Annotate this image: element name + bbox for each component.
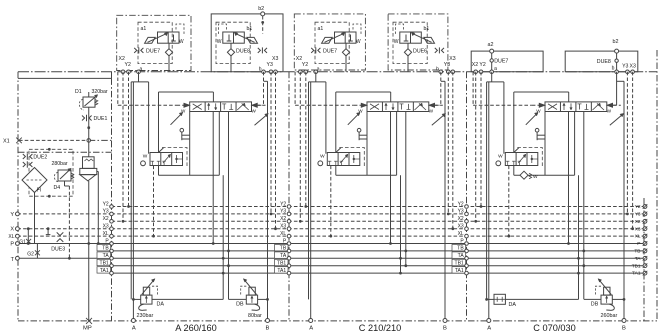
svg-text:b2: b2 bbox=[258, 6, 264, 12]
pressure reducer section 1 dashed box bbox=[162, 148, 187, 167]
main valve V2 right actuator bbox=[429, 104, 442, 106]
wire a pilot supply section 3 bbox=[491, 72, 493, 82]
plug G1 bbox=[27, 229, 29, 244]
wire b pilot to right actuator section 1 bbox=[263, 72, 265, 105]
bus line Y2 bbox=[112, 206, 644, 208]
wire LS B section 2 bbox=[405, 112, 407, 266]
svg-text:X: X bbox=[10, 227, 14, 233]
svg-text:a1: a1 bbox=[141, 26, 147, 32]
pilot valve DUE7 blocked port bbox=[173, 35, 175, 42]
bus line TB1 bbox=[112, 265, 644, 267]
section 1 b-pilot solid box bbox=[211, 14, 283, 72]
svg-text:X3: X3 bbox=[103, 224, 109, 230]
svg-text:DA: DA bbox=[509, 302, 517, 308]
pressure reducer valve section 1 body bbox=[150, 153, 183, 166]
port B section 1 bbox=[266, 319, 270, 323]
node TB section 2 bbox=[275, 245, 289, 251]
main valve V2 left actuator bbox=[354, 104, 366, 106]
relief valve DB3 arrow bbox=[599, 280, 612, 295]
svg-text:P: P bbox=[637, 241, 640, 247]
wire DB to LS bbox=[229, 298, 247, 300]
pilot valve DUE8 dashed box bbox=[216, 22, 250, 63]
manifold top interface line bbox=[18, 71, 657, 73]
pilot valve DUE8 flow arrow bbox=[236, 34, 255, 43]
section 3 b2 remote box bbox=[565, 51, 638, 72]
bus line XL bbox=[112, 235, 644, 237]
pilot valve DUE7 flow arrow bbox=[325, 34, 344, 43]
svg-text:DUE2: DUE2 bbox=[33, 154, 47, 160]
svg-text:Y2: Y2 bbox=[458, 201, 464, 207]
main valve V3 right proportional arrow bbox=[610, 114, 623, 125]
svg-text:TB1: TB1 bbox=[277, 261, 286, 267]
relief valve DA1 arrow bbox=[142, 280, 155, 295]
svg-text:TB: TB bbox=[102, 246, 109, 252]
feedback box section 2 bbox=[336, 91, 391, 93]
pilot valve DUE6 dashed box bbox=[393, 22, 427, 63]
main valve V1 internals bbox=[193, 104, 202, 110]
node TB1 section 3 bbox=[452, 259, 466, 265]
node TB section 3 bbox=[452, 245, 466, 251]
node TB1 section 2 bbox=[275, 259, 289, 265]
svg-text:B: B bbox=[622, 326, 626, 332]
enclosure outer border right (dash-dot) bbox=[656, 50, 658, 321]
measuring connection section 2 bbox=[357, 128, 361, 132]
node TA section 3 bbox=[452, 252, 466, 258]
wire MP riser bbox=[88, 244, 90, 321]
relief valve DB3 remote bracket bbox=[595, 286, 601, 295]
main valve V2 left proportional arrow bbox=[348, 113, 360, 125]
wire A to DA bbox=[133, 298, 140, 300]
relief valve DA1 drain bbox=[139, 304, 147, 310]
svg-text:TA1: TA1 bbox=[632, 271, 641, 277]
svg-text:TA: TA bbox=[635, 256, 642, 262]
node TA1 section 1 bbox=[97, 267, 111, 273]
main valve V2 internals bbox=[370, 104, 379, 110]
svg-text:W: W bbox=[533, 174, 538, 180]
wire DUE8 output to manifold bbox=[230, 56, 232, 72]
wire X3 pilot section 2 bbox=[452, 72, 454, 229]
pilot connector DUE7 bbox=[311, 48, 314, 53]
svg-text:TA1: TA1 bbox=[277, 268, 286, 274]
svg-text:B: B bbox=[443, 326, 447, 332]
feedback box section 3 bbox=[514, 91, 569, 93]
svg-text:W: W bbox=[429, 109, 434, 114]
svg-text:A: A bbox=[132, 326, 136, 332]
pilot valve DUE7 body bbox=[335, 32, 357, 43]
svg-text:Y3: Y3 bbox=[635, 212, 641, 218]
pilot valve DUE7 solenoid bbox=[145, 37, 156, 43]
svg-text:DUE7: DUE7 bbox=[146, 49, 160, 55]
svg-text:X2: X2 bbox=[472, 62, 478, 68]
wire LS A section 2 bbox=[400, 175, 402, 273]
relief valve DB1 body bbox=[246, 295, 257, 304]
svg-text:80bar: 80bar bbox=[248, 313, 262, 319]
svg-text:X3: X3 bbox=[272, 56, 278, 62]
enclosure bottom border (dash-dot) bbox=[18, 320, 657, 322]
supply internal divider (dash-dot) bbox=[18, 151, 112, 153]
wire A work line section 1 bbox=[130, 82, 132, 300]
section divider 4 (dash-dot) bbox=[643, 198, 645, 321]
bus line P bbox=[112, 243, 644, 245]
pilot valve DUE7 blocked port bbox=[350, 35, 352, 42]
wire X1 pilot line bbox=[19, 139, 89, 141]
pilot connector DUE1 bbox=[82, 116, 85, 121]
bus line Y3 bbox=[112, 213, 644, 215]
pilot valve DUE7 dashed box bbox=[138, 22, 172, 63]
relief valve DB1 drain bbox=[252, 304, 260, 310]
svg-text:DA: DA bbox=[157, 302, 165, 308]
svg-text:W: W bbox=[320, 154, 325, 160]
wire pump to P bus bbox=[88, 181, 90, 244]
pilot valve DUE8 orifice check bbox=[230, 43, 232, 49]
pressure reducer section 2 dashed box bbox=[339, 148, 364, 167]
wire B work line section 2 bbox=[444, 81, 446, 320]
svg-text:DUE8: DUE8 bbox=[236, 49, 250, 55]
wire X2 pilot section 3 bbox=[475, 72, 477, 222]
svg-text:A: A bbox=[309, 326, 313, 332]
relief valve D1 320bar bbox=[83, 97, 95, 107]
svg-text:TB1: TB1 bbox=[100, 261, 109, 267]
node TB1 section 1 bbox=[97, 259, 111, 265]
pressure reducer section 3 dashed box bbox=[517, 148, 542, 167]
wire Y3 pilot section 3 bbox=[626, 72, 628, 214]
svg-text:Y2: Y2 bbox=[125, 62, 131, 68]
svg-text:W: W bbox=[252, 109, 257, 114]
wire P feed section 2 bbox=[390, 112, 392, 244]
section 2 b-pilot enclosure (dash-dot) bbox=[388, 14, 448, 70]
wire X2 pilot section 1 bbox=[122, 72, 124, 222]
pressure reducer section 2 internals bbox=[340, 156, 347, 164]
wire a pilot supply section 2 bbox=[315, 72, 317, 82]
supply section top edge bbox=[18, 77, 112, 79]
pilot connector DUE2 bbox=[23, 154, 26, 159]
svg-text:Y2: Y2 bbox=[302, 62, 308, 68]
section 2 a-pilot enclosure (dash-dot) bbox=[294, 14, 365, 70]
pressure reducer valve section 3 body bbox=[505, 153, 538, 166]
pilot valve DUE7 dashed box bbox=[315, 22, 349, 63]
wire DUE6 output to manifold bbox=[407, 56, 409, 72]
relief valve DA1 remote bracket bbox=[152, 286, 158, 295]
pilot valve DUE8 blocked port bbox=[228, 35, 230, 42]
pilot connector DUE6 bbox=[435, 48, 438, 53]
check valve with spring section 3 bbox=[520, 171, 528, 179]
svg-text:b: b bbox=[612, 66, 615, 72]
wire XL pilot drain section 3 bbox=[508, 166, 510, 237]
svg-text:G1: G1 bbox=[19, 240, 26, 246]
svg-text:320bar: 320bar bbox=[92, 89, 108, 95]
svg-text:b2: b2 bbox=[613, 39, 619, 45]
svg-text:XL: XL bbox=[635, 234, 641, 240]
wire DA to LS bbox=[152, 298, 223, 300]
svg-text:A: A bbox=[487, 326, 491, 332]
wire XL pilot drain section 2 bbox=[330, 166, 332, 237]
svg-text:C 070/030: C 070/030 bbox=[533, 323, 575, 333]
bus line TA1 bbox=[112, 272, 644, 274]
wire X2 pilot section 2 bbox=[299, 72, 301, 222]
svg-text:Y2: Y2 bbox=[280, 201, 286, 207]
wire XL pilot drain section 1 bbox=[153, 166, 155, 237]
svg-text:Y2: Y2 bbox=[635, 204, 641, 210]
measuring connection section 1 bbox=[180, 128, 184, 132]
svg-text:W: W bbox=[498, 154, 503, 160]
pilot valve DUE7 orifice check bbox=[345, 43, 347, 49]
relief valve DB3 body bbox=[601, 295, 612, 304]
main valve V3 left actuator bbox=[532, 104, 544, 106]
svg-text:C 210/210: C 210/210 bbox=[359, 323, 401, 333]
svg-text:DUE8: DUE8 bbox=[597, 59, 611, 65]
svg-text:W: W bbox=[143, 154, 148, 160]
main valve V1 left proportional arrow bbox=[171, 113, 183, 125]
plugged stub on X bbox=[47, 229, 49, 235]
svg-text:Y3: Y3 bbox=[103, 209, 109, 215]
svg-text:FI: FI bbox=[37, 187, 42, 193]
svg-text:X2: X2 bbox=[280, 216, 286, 222]
section 3 a2 remote box bbox=[471, 51, 543, 72]
wire valve A port section 3 bbox=[544, 112, 546, 176]
main valve V1 right actuator bbox=[252, 104, 265, 106]
pilot valve DUE7 solenoid bbox=[322, 37, 333, 43]
node TA1 section 3 bbox=[452, 267, 466, 273]
enclosure outer border left (dash-dot) bbox=[17, 72, 19, 321]
wire D1 to pump line bbox=[88, 107, 90, 157]
svg-text:X3: X3 bbox=[280, 224, 286, 230]
section divider 3 (dash-dot) bbox=[466, 72, 468, 321]
main valve V1 left actuator bbox=[177, 104, 189, 106]
svg-text:X3: X3 bbox=[449, 56, 455, 62]
svg-text:280bar: 280bar bbox=[52, 161, 68, 167]
pressure reducer section 3 internals bbox=[518, 156, 525, 164]
svg-text:W: W bbox=[607, 109, 612, 114]
svg-text:TB: TB bbox=[634, 249, 640, 255]
pilot valve DUE8 connector bracket bbox=[219, 24, 227, 35]
wire Y2 pilot section 1 bbox=[128, 72, 130, 207]
wire P feed section 1 bbox=[212, 112, 214, 244]
svg-text:TA1: TA1 bbox=[100, 268, 109, 274]
svg-text:W: W bbox=[217, 39, 222, 45]
svg-text:G2: G2 bbox=[27, 251, 34, 257]
wire valve A port section 2 bbox=[366, 112, 368, 176]
wire a pilot supply section 1 bbox=[138, 72, 140, 82]
relief valve DB1 arrow bbox=[244, 280, 257, 295]
svg-text:DUE1: DUE1 bbox=[94, 116, 108, 122]
svg-text:X2: X2 bbox=[103, 216, 109, 222]
port Y stub bbox=[17, 213, 111, 215]
svg-text:A 260/160: A 260/160 bbox=[175, 323, 216, 333]
pilot valve DUE6 blocked port bbox=[405, 35, 407, 42]
wire pilot drain to T bbox=[68, 186, 70, 258]
svg-text:X3: X3 bbox=[635, 226, 641, 232]
section divider 2 (dash-dot) bbox=[288, 72, 290, 321]
wire Y3 pilot section 1 bbox=[270, 72, 272, 214]
svg-text:TA: TA bbox=[103, 253, 110, 259]
svg-text:260bar: 260bar bbox=[601, 313, 618, 319]
bus line X2 bbox=[112, 220, 644, 222]
pilot connector DUE8 bbox=[258, 48, 261, 53]
wire LS B section 3 bbox=[583, 112, 585, 300]
svg-text:W: W bbox=[356, 39, 361, 45]
pilot valve DUE6 orifice check bbox=[407, 43, 409, 49]
pressure reducer section 1 drain circle bbox=[141, 161, 146, 166]
port A section 2 bbox=[309, 319, 313, 323]
svg-text:B: B bbox=[266, 326, 270, 332]
wire X3 pilot section 1 bbox=[275, 72, 277, 229]
port X stub bbox=[17, 228, 111, 230]
pressure reducer section 2 drain circle bbox=[318, 161, 323, 166]
svg-text:DB: DB bbox=[236, 302, 244, 308]
svg-text:Y3: Y3 bbox=[280, 209, 286, 215]
pilot valve DUE8 body bbox=[223, 32, 245, 43]
relief valve DA1 pilot cap bbox=[143, 287, 149, 295]
section 1 pilot enclosure (dash-dot) bbox=[117, 15, 191, 70]
pressure reducer section 1 internals bbox=[163, 156, 170, 164]
svg-text:X2: X2 bbox=[458, 216, 464, 222]
svg-text:Y3: Y3 bbox=[267, 62, 273, 68]
main valve V3 internals bbox=[548, 104, 557, 110]
bus line X3 bbox=[112, 228, 644, 230]
node TA1 section 2 bbox=[275, 267, 289, 273]
wire A work line section 2 bbox=[308, 82, 310, 300]
pilot valve DUE6 connector bracket bbox=[396, 24, 404, 35]
svg-text:Y: Y bbox=[10, 212, 14, 218]
svg-text:DUE6: DUE6 bbox=[413, 49, 427, 55]
svg-text:a1: a1 bbox=[318, 26, 324, 32]
wire b pilot to right actuator section 3 bbox=[616, 72, 618, 105]
main valve V1 right proportional arrow bbox=[255, 114, 268, 125]
pilot valve DUE7 body bbox=[158, 32, 180, 43]
wire D4 drain bbox=[64, 181, 66, 186]
svg-text:D4: D4 bbox=[54, 185, 61, 191]
wire Y2 pilot section 2 bbox=[305, 72, 307, 207]
svg-text:X3: X3 bbox=[630, 63, 636, 69]
wire Y2 pilot section 3 bbox=[480, 72, 482, 207]
svg-text:DUE7: DUE7 bbox=[494, 59, 508, 65]
wire A3 to DA3 bbox=[487, 298, 494, 300]
wire filter bypass bbox=[97, 171, 99, 173]
svg-text:XL: XL bbox=[103, 231, 109, 237]
main valve V2 right proportional arrow bbox=[432, 114, 445, 125]
wire DB3 to B bbox=[612, 298, 624, 300]
svg-text:DUE7: DUE7 bbox=[323, 49, 337, 55]
bus line TB bbox=[112, 250, 644, 252]
wire A work line section 3 bbox=[486, 82, 488, 300]
port B section 3 bbox=[622, 319, 626, 323]
pilot valve DUE6 flow arrow bbox=[413, 34, 432, 43]
section divider 1 (dash-dot) bbox=[111, 78, 113, 321]
svg-text:X3: X3 bbox=[458, 224, 464, 230]
svg-text:a2: a2 bbox=[488, 42, 494, 48]
pilot valve DUE6 body bbox=[400, 32, 422, 43]
pilot valve DUE6 solenoid bbox=[424, 37, 435, 43]
svg-text:X1: X1 bbox=[3, 139, 10, 145]
pilot valve DUE8 solenoid bbox=[247, 37, 258, 43]
svg-text:XL: XL bbox=[280, 231, 286, 237]
svg-text:P: P bbox=[10, 242, 14, 248]
pilot valve DUE7 orifice check bbox=[168, 43, 170, 49]
wire DUE7 output to manifold bbox=[345, 56, 347, 72]
wire pilot to left actuator section 1 bbox=[117, 72, 119, 105]
wire LS A section 3 bbox=[578, 175, 580, 299]
svg-text:TB1: TB1 bbox=[455, 261, 464, 267]
wire B work line section 3 bbox=[623, 81, 625, 320]
port P stub bbox=[17, 243, 111, 245]
wire pilot to left actuator section 3 bbox=[472, 72, 474, 105]
port MP bbox=[86, 318, 92, 324]
svg-text:XL: XL bbox=[458, 231, 464, 237]
svg-text:W: W bbox=[179, 39, 184, 45]
wire b2 to pilot bbox=[262, 16, 264, 34]
main valve V3 right actuator bbox=[607, 104, 620, 106]
svg-text:D1: D1 bbox=[75, 89, 82, 95]
wire LS B section 1 bbox=[228, 112, 230, 300]
wire filter to P bbox=[34, 193, 36, 244]
pilot valve DUE7 connector bracket bbox=[176, 24, 184, 35]
relief valve DB3 pilot cap bbox=[604, 287, 610, 295]
wire DA3 to LS bbox=[505, 298, 578, 300]
check element DUE3 bbox=[57, 232, 64, 235]
port A section 3 bbox=[487, 319, 491, 323]
wire pilot to left actuator section 2 bbox=[294, 72, 296, 105]
pilot valve DUE7 connector bracket bbox=[353, 24, 361, 35]
relief valve DB3 drain bbox=[606, 304, 614, 310]
node TB section 1 bbox=[97, 245, 111, 251]
filter FI bbox=[22, 168, 47, 193]
main valve V1 body bbox=[190, 102, 252, 112]
svg-text:a: a bbox=[494, 66, 497, 72]
feedback box section 1 bbox=[159, 91, 214, 93]
svg-text:Y3: Y3 bbox=[444, 62, 450, 68]
svg-text:TB1: TB1 bbox=[632, 263, 641, 269]
wire b pilot to right actuator section 2 bbox=[440, 72, 442, 105]
svg-text:230bar: 230bar bbox=[137, 313, 154, 319]
svg-text:MP: MP bbox=[83, 326, 92, 332]
svg-text:W: W bbox=[394, 39, 399, 45]
port B section 2 bbox=[443, 319, 447, 323]
wire X3 pilot section 3 bbox=[632, 72, 634, 229]
measuring connection section 3 bbox=[535, 128, 539, 132]
main valve V3 left proportional arrow bbox=[526, 113, 538, 125]
pilot valve DUE7 flow arrow bbox=[148, 34, 167, 43]
port A section 1 bbox=[131, 319, 135, 323]
wire DB to B bbox=[258, 298, 268, 300]
relief valve DA1 body bbox=[141, 295, 152, 304]
pilot connector DUE7 bbox=[134, 48, 137, 53]
svg-text:X2: X2 bbox=[635, 219, 641, 225]
svg-text:TA: TA bbox=[280, 253, 287, 259]
relief valve DB1 remote bracket bbox=[241, 286, 247, 295]
svg-text:XL: XL bbox=[8, 234, 14, 240]
wire valve A port section 1 bbox=[189, 112, 191, 176]
svg-text:TA: TA bbox=[458, 253, 465, 259]
svg-text:TA1: TA1 bbox=[455, 268, 464, 274]
port T stub bbox=[17, 257, 111, 259]
wire Y3 pilot section 2 bbox=[447, 72, 449, 214]
wire P feed section 3 bbox=[568, 112, 570, 244]
pressure reducer valve section 2 body bbox=[327, 153, 360, 166]
main valve V2 body bbox=[367, 102, 429, 112]
wire DB3 to LS bbox=[584, 298, 601, 300]
node TA section 2 bbox=[275, 252, 289, 258]
svg-text:b1: b1 bbox=[424, 26, 430, 32]
bus line TA bbox=[112, 257, 644, 259]
pressure reducer section 3 drain circle bbox=[496, 161, 501, 166]
wire DUE7 output to manifold bbox=[168, 56, 170, 72]
relief valve DB1 pilot cap bbox=[249, 287, 255, 295]
dashed group box filter/D4 bbox=[29, 149, 73, 196]
svg-text:Y2: Y2 bbox=[479, 62, 485, 68]
svg-text:Y2: Y2 bbox=[103, 201, 109, 207]
orifice plug DA section 3 bbox=[494, 294, 505, 304]
wire LS A section 1 bbox=[222, 175, 224, 299]
